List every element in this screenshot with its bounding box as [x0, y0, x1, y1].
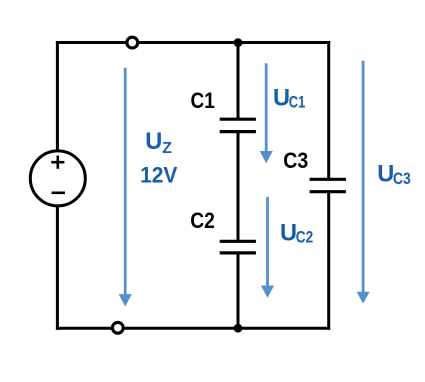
svg-text:C1: C1	[289, 93, 306, 111]
svg-text:12V: 12V	[140, 162, 177, 187]
wire middle branch lower (C2 to bottom rail)	[237, 254, 240, 328]
label Uc1	[273, 86, 305, 112]
svg-text:U: U	[377, 162, 394, 188]
node junction (bottom, middle branch)	[234, 324, 243, 333]
terminal (open circle, bottom)	[112, 322, 123, 333]
voltage arrow Uz	[119, 68, 132, 307]
svg-text:U: U	[280, 220, 297, 246]
capacitor C3	[310, 179, 346, 191]
capacitor C1	[220, 119, 256, 131]
voltage arrow Uc2	[261, 197, 274, 298]
wire top rail	[57, 41, 328, 44]
voltage source V1	[30, 151, 85, 206]
label Uz	[145, 129, 172, 157]
svg-text:Z: Z	[162, 140, 172, 157]
node junction (top, middle branch)	[234, 38, 243, 47]
wire left vertical lower (source - terminal to bottom rail)	[56, 207, 59, 329]
capacitor C2	[220, 241, 256, 253]
wire right branch lower (C3 to bottom rail)	[327, 193, 330, 329]
wire bottom rail	[57, 327, 328, 330]
svg-text:C2: C2	[190, 208, 215, 233]
wire right branch upper (top rail to C3)	[327, 43, 330, 179]
svg-text:C3: C3	[393, 170, 411, 188]
terminal (open circle, top)	[127, 37, 138, 48]
label Uc2	[280, 220, 313, 246]
svg-text:U: U	[273, 86, 290, 112]
wire middle branch upper (top rail to C1)	[237, 43, 240, 118]
svg-text:C2: C2	[296, 228, 314, 246]
svg-text:U: U	[145, 129, 162, 155]
wire left vertical upper (source + terminal to top-left corner)	[56, 43, 59, 152]
svg-text:C3: C3	[283, 148, 308, 173]
voltage arrow Uc3	[357, 61, 370, 304]
label Uc3	[377, 162, 411, 188]
wire middle branch between C1 and C2	[237, 133, 240, 240]
voltage arrow Uc1	[260, 63, 273, 163]
svg-text:C1: C1	[191, 88, 215, 113]
